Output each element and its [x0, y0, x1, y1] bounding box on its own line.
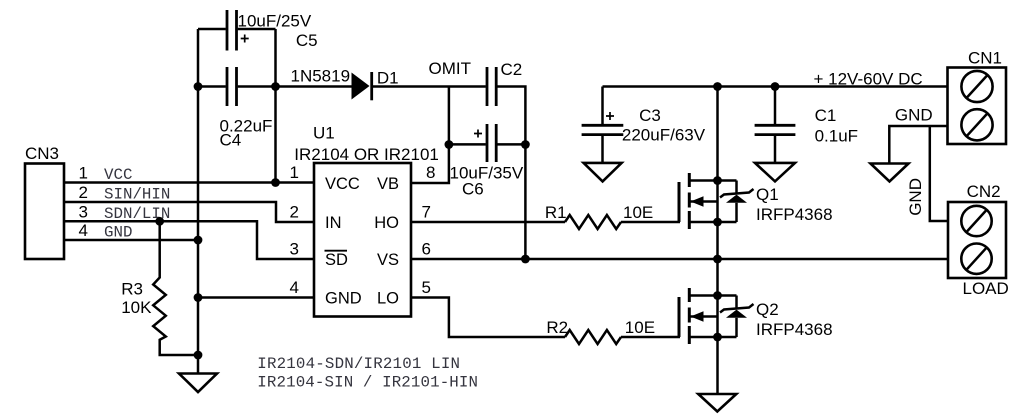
svg-text:4: 4: [79, 221, 88, 240]
svg-text:10E: 10E: [625, 318, 655, 337]
wire R1 to Q1 gate: [621, 221, 680, 224]
svg-text:0.1uF: 0.1uF: [815, 126, 858, 145]
svg-text:1: 1: [290, 163, 299, 182]
wire CN1 GND: [889, 126, 947, 164]
junction C6 right: [521, 140, 530, 149]
svg-text:+ 12V-60V DC: + 12V-60V DC: [814, 69, 923, 88]
svg-text:U1: U1: [313, 124, 335, 143]
wire top loop right: [238, 28, 276, 31]
wire C4 to D1 anode: [238, 85, 352, 88]
svg-text:1: 1: [79, 164, 88, 183]
svg-text:3: 3: [290, 240, 299, 259]
svg-text:2: 2: [79, 183, 88, 202]
junction rail C1: [771, 82, 780, 91]
svg-text:IR2104-SIN / IR2101-HIN: IR2104-SIN / IR2101-HIN: [257, 373, 478, 391]
svg-text:CN3: CN3: [25, 144, 59, 163]
svg-text:R1: R1: [545, 203, 567, 222]
svg-text:IR2104 OR IR2101: IR2104 OR IR2101: [294, 145, 439, 164]
capacitor C5: [227, 10, 318, 51]
svg-text:SD: SD: [325, 251, 348, 269]
connector CN2: [948, 182, 1009, 298]
ground C1: [755, 163, 795, 182]
wire +12V rail: [603, 85, 948, 88]
svg-text:CN2: CN2: [967, 182, 1001, 201]
svg-text:VCC: VCC: [325, 175, 360, 193]
wire CN3 pin3 SDN/LIN to U1 pin3: [64, 221, 314, 259]
transistor Q2 IRFP4368: [679, 288, 833, 344]
wire U1 pin5 LO elbow to R2: [411, 298, 565, 338]
svg-text:C6: C6: [462, 180, 484, 199]
transistor Q1 IRFP4368: [679, 173, 833, 229]
ground Q2 source: [698, 394, 736, 412]
svg-text:C3: C3: [639, 106, 661, 125]
junction C4 right: [271, 82, 280, 91]
svg-text:10K: 10K: [121, 298, 152, 317]
svg-text:C1: C1: [815, 106, 837, 125]
svg-text:GND: GND: [325, 290, 362, 308]
svg-text:C4: C4: [220, 131, 242, 150]
wire ground bus vertical: [197, 29, 200, 374]
capacitor C6: [450, 124, 524, 199]
junction GND pin4: [194, 293, 203, 302]
wire U1 pin8 VB elbow: [411, 87, 449, 184]
svg-text:2: 2: [290, 203, 299, 222]
svg-text:3: 3: [79, 202, 88, 221]
svg-text:Q2: Q2: [756, 300, 779, 319]
resistor R2 10E: [546, 318, 655, 344]
capacitor C4: [220, 67, 273, 150]
svg-text:OMIT: OMIT: [429, 59, 472, 78]
svg-text:IR2104-SDN/IR2101 LIN: IR2104-SDN/IR2101 LIN: [257, 355, 460, 373]
svg-text:7: 7: [422, 203, 431, 222]
svg-text:10uF/35V: 10uF/35V: [450, 163, 524, 182]
capacitor C2 (OMIT): [429, 59, 523, 106]
junction Q1 drain: [713, 176, 722, 185]
connector CN3: [25, 144, 64, 259]
svg-text:LOAD: LOAD: [963, 279, 1009, 298]
CN3 pin numbers 1-4: [79, 164, 88, 241]
svg-text:VS: VS: [377, 251, 399, 269]
junction R3 top: [155, 217, 164, 226]
svg-text:VB: VB: [377, 175, 399, 193]
junction Q1 source: [713, 218, 722, 227]
ground CN1: [871, 164, 909, 182]
wire VS row U1 pin6 to CN2 LOAD: [411, 258, 947, 261]
svg-text:8: 8: [426, 163, 435, 182]
capacitor C3 220uF/63V: [582, 87, 706, 163]
wire half-bridge vertical: [716, 87, 719, 395]
svg-text:R3: R3: [121, 279, 143, 298]
junction Q2 drain: [713, 291, 722, 300]
junction GND wire4: [194, 236, 203, 245]
svg-text:C5: C5: [296, 31, 318, 50]
junction VB C6 left: [445, 140, 454, 149]
wire R2 to Q2 gate: [621, 336, 680, 339]
junction VS: [521, 255, 530, 264]
svg-text:10E: 10E: [623, 203, 653, 222]
wire CN3 pin1 VCC to U1 pin1: [64, 181, 314, 184]
svg-text:CN1: CN1: [968, 49, 1002, 68]
junction switch node: [713, 255, 722, 264]
junction R3 bottom: [194, 351, 203, 360]
IC U1 IR2104: [294, 124, 439, 317]
wire CN3 pin4 GND: [64, 239, 198, 242]
wire mid left: [198, 85, 226, 88]
capacitor C1 0.1uF: [755, 87, 858, 163]
svg-text:R2: R2: [546, 318, 568, 337]
wire C6 node left: [449, 143, 486, 146]
svg-text:Q1: Q1: [756, 185, 779, 204]
wire U1 pin7 HO to R1: [411, 221, 565, 224]
svg-text:IRFP4368: IRFP4368: [756, 320, 833, 339]
ground C3: [584, 163, 622, 182]
junction Q2 source: [713, 333, 722, 342]
svg-text:6: 6: [422, 240, 431, 259]
svg-text:4: 4: [290, 278, 299, 297]
wire CN3 pin2 SIN/HIN to U1 pin2: [64, 202, 314, 222]
wire C6 node right: [497, 143, 525, 146]
svg-text:C2: C2: [501, 60, 523, 79]
junction VCC pin1: [271, 178, 280, 187]
svg-text:GND: GND: [895, 106, 933, 125]
svg-text:220uF/63V: 220uF/63V: [622, 126, 706, 145]
svg-text:10uF/25V: 10uF/25V: [238, 11, 312, 30]
junction C4 left: [194, 82, 203, 91]
svg-text:1N5819: 1N5819: [291, 66, 351, 85]
svg-text:HO: HO: [374, 214, 399, 232]
svg-text:5: 5: [422, 278, 431, 297]
resistor R3 10K: [121, 221, 198, 355]
wire top loop C5: [198, 28, 226, 31]
svg-text:D1: D1: [377, 68, 399, 87]
svg-text:IRFP4368: IRFP4368: [756, 205, 833, 224]
wire U1 pin4 GND: [198, 296, 314, 299]
wire D1 cathode to C2: [372, 85, 486, 88]
ground CN3 circuit: [179, 374, 217, 393]
diode D1 1N5819: [291, 66, 399, 100]
svg-text:IN: IN: [325, 214, 342, 232]
junction rail Q1 drain: [713, 82, 722, 91]
svg-text:GND: GND: [906, 178, 925, 216]
wire VCC vertical: [274, 29, 277, 183]
resistor R1 10E: [545, 203, 653, 229]
connector CN1: [948, 49, 1007, 144]
wire GND to CN2: [930, 126, 948, 221]
svg-text:LO: LO: [377, 290, 399, 308]
wire C2 right to VS drop: [497, 87, 525, 260]
